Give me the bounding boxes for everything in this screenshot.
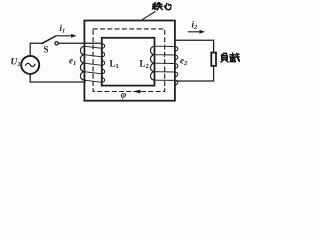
current arrow i1 xyxy=(56,35,73,37)
svg-text:e2: e2 xyxy=(180,55,188,67)
svg-text:L1: L1 xyxy=(110,59,119,71)
svg-text:S: S xyxy=(44,45,49,55)
load resistor rectangle xyxy=(211,53,216,66)
switch contact circle xyxy=(55,42,58,45)
label 铁 (iron) hand strokes xyxy=(153,3,163,10)
wire L2 bottom to load xyxy=(175,66,214,81)
svg-text:φ: φ xyxy=(121,90,127,100)
wire switch to winding L1 top xyxy=(58,42,101,44)
switch S blade xyxy=(42,36,55,43)
svg-text:i2: i2 xyxy=(192,20,199,32)
label pointer line for iron core xyxy=(141,12,155,21)
winding L2 crossing turns xyxy=(155,46,175,80)
winding L2 inner scallops xyxy=(151,46,155,80)
core outer rectangle xyxy=(84,21,174,101)
winding L1 inner bumps xyxy=(102,44,105,83)
winding L1 crossing turns xyxy=(84,46,101,82)
winding L2 outer bumps xyxy=(175,47,178,85)
svg-text:i1: i1 xyxy=(60,23,66,35)
svg-text:e1: e1 xyxy=(69,56,76,68)
label 心 (core) hand strokes xyxy=(164,3,171,9)
svg-text:U1: U1 xyxy=(11,58,21,69)
tilde inside source xyxy=(25,63,35,66)
flux dashed path xyxy=(93,29,165,92)
current arrow i2 xyxy=(188,31,201,33)
label 载 (load char 2) hand strokes xyxy=(230,53,240,62)
switch hinge dot xyxy=(41,42,43,44)
wire source top to switch xyxy=(30,43,42,56)
flux direction arrowhead (points left on bottom dashed edge) xyxy=(133,90,141,94)
winding L1 outer scallops xyxy=(80,46,84,80)
svg-text:L2: L2 xyxy=(140,59,149,71)
label 负 (load char 1) hand strokes xyxy=(221,53,228,62)
core inner rectangle (window) xyxy=(102,38,155,86)
wire L2 top to load xyxy=(175,40,214,52)
ac source U1 xyxy=(21,56,39,74)
wire source bottom to winding L1 bottom xyxy=(30,74,85,82)
